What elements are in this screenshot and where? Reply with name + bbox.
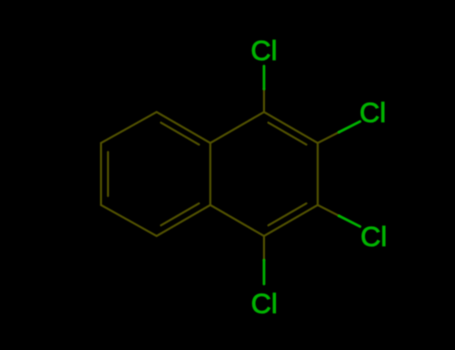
svg-text:Cl: Cl bbox=[251, 288, 277, 319]
svg-text:Cl: Cl bbox=[361, 221, 387, 252]
svg-text:Cl: Cl bbox=[251, 35, 277, 66]
svg-text:Cl: Cl bbox=[360, 97, 386, 128]
